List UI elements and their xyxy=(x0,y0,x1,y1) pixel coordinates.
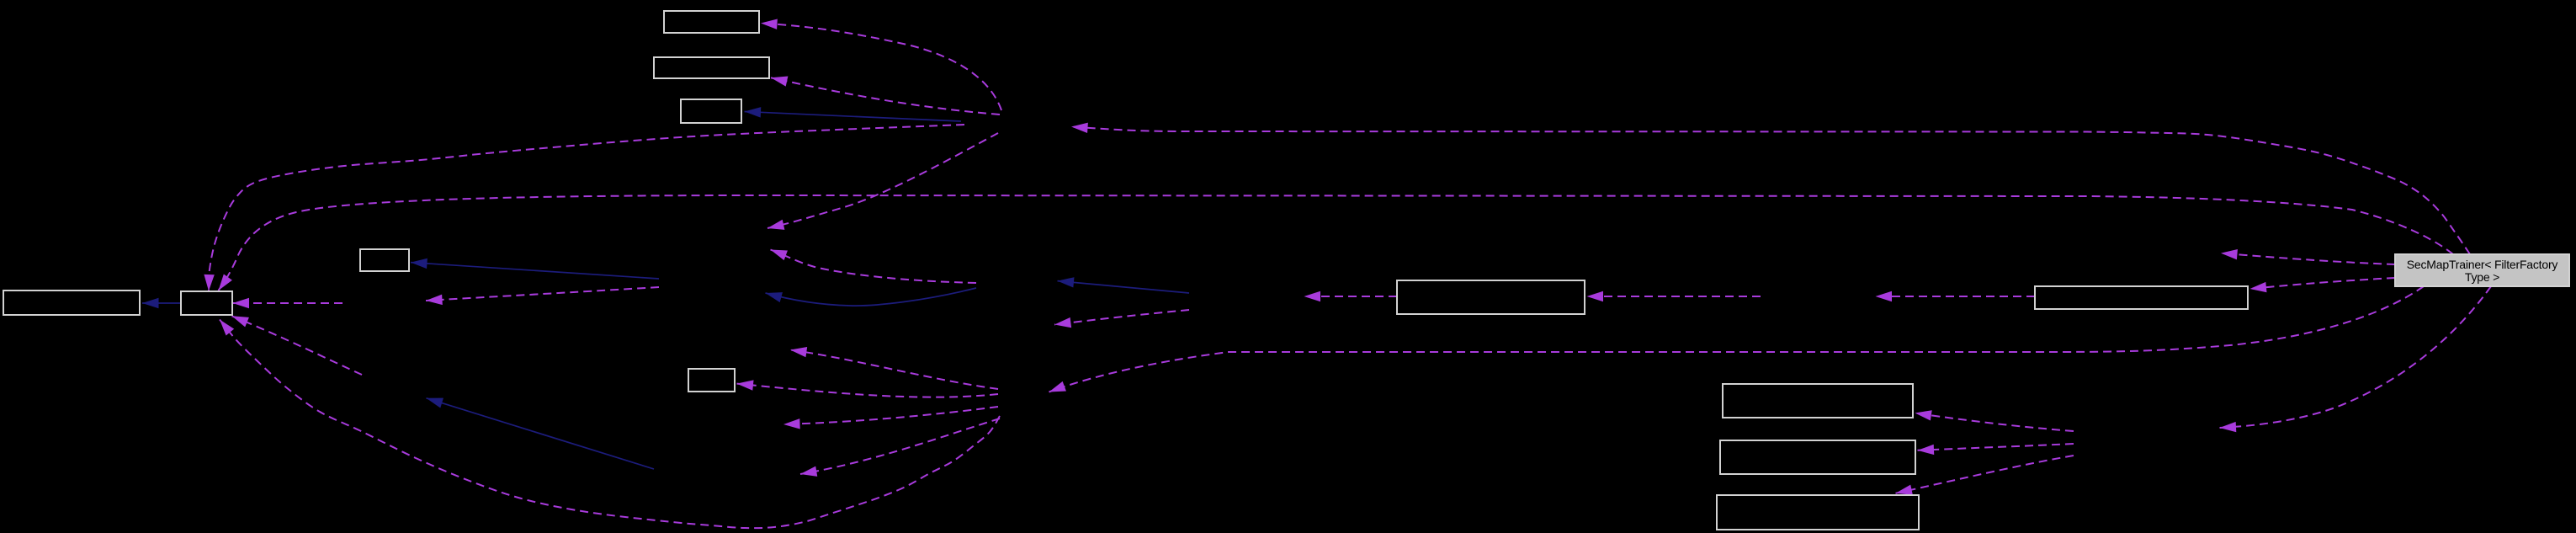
wire: hidden node U7 to hidden node U6 dashed xyxy=(771,250,977,284)
wire: box B9 to hidden node N8 xyxy=(1876,296,2036,297)
box B2 xyxy=(654,57,769,78)
box B8 xyxy=(1397,280,1585,314)
wire: hidden node N2 to box B5 right xyxy=(233,302,343,304)
wire f1: hidden node N5 to box B7 xyxy=(737,384,999,397)
wire g6: main node to hidden node N5 xyxy=(1049,286,2425,392)
svg-text:SecMapTrainer< FilterFactory: SecMapTrainer< FilterFactory xyxy=(2407,258,2558,271)
wire h3: hidden node N9 to box B12 xyxy=(1896,456,2074,493)
box B10 xyxy=(1723,384,1913,418)
wire diag: hidden node V4 to box B5 bottom xyxy=(232,316,363,375)
wire f3: hidden node N5 to hidden node V2 xyxy=(783,407,998,424)
wire E3 blue: hidden node T to box B3 xyxy=(745,112,962,122)
wire steep: hidden node T to hidden node U6 xyxy=(767,133,998,228)
wire E4: hidden node T to box B5 top xyxy=(209,125,964,291)
wire blue: hidden node M to hidden node U7 xyxy=(1058,281,1190,293)
box B11 xyxy=(1720,440,1915,474)
wire E2: hidden node T to box B2 xyxy=(771,77,1000,115)
wire h1: hidden node N9 to box B10 xyxy=(1915,413,2074,432)
wire g4: main node to hidden node N3 xyxy=(2221,253,2395,264)
wire blue: hidden node U6 to box B6 xyxy=(411,263,659,279)
wire g2: main node to box B5 top xyxy=(219,195,2454,290)
wire E1: hidden node T to box B1 xyxy=(761,24,1001,111)
wire g3: main node to box B9 xyxy=(2250,278,2396,289)
wire h2: hidden node N9 to box B11 xyxy=(1918,444,2074,450)
wire blue: hidden node U7 to hidden node U6 xyxy=(766,288,977,306)
box B12 xyxy=(1717,495,1919,530)
box B1 xyxy=(664,11,759,33)
wire: hidden node N8 to box B8 xyxy=(1587,296,1761,297)
wire: box B8 to hidden node M xyxy=(1304,296,1398,297)
wire: hidden node U6 to hidden node N2 xyxy=(426,287,659,301)
box B4 xyxy=(3,290,140,315)
wire blue: box B5 to box B4 xyxy=(142,302,181,304)
wire f4: hidden node N5 to hidden node V3 xyxy=(800,418,1000,474)
node main: SecMapTrainer< FilterFactoryType > xyxy=(2395,254,2569,286)
box B9 xyxy=(2035,286,2248,309)
wire: hidden node M to hidden node U7 dashed xyxy=(1054,310,1189,325)
svg-text:Type >: Type > xyxy=(2465,270,2499,284)
wire g5: main node to hidden node N9 xyxy=(2220,286,2492,428)
wire g1: main node to hidden node T xyxy=(1071,127,2470,255)
box B5 xyxy=(181,291,232,315)
wire f2: hidden node N5 to hidden node V1 xyxy=(790,350,998,390)
box B7 xyxy=(688,369,735,392)
wire blue: hidden node V5 to hidden node V4 xyxy=(427,398,655,469)
box B3 xyxy=(681,99,741,123)
wire f5: hidden node N5 to box B5 bottom arc xyxy=(220,320,1000,529)
box B6 xyxy=(360,249,409,271)
